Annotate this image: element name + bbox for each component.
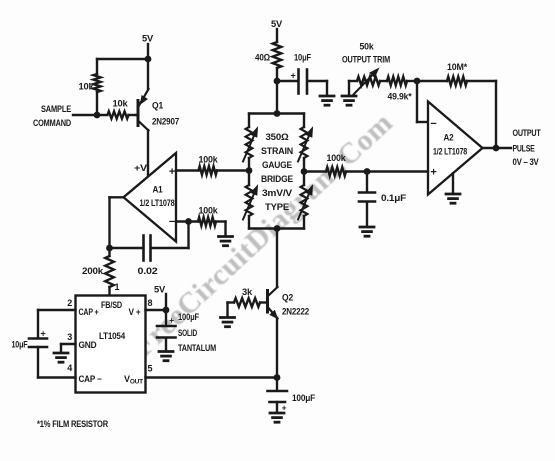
ground (LT1054 GND pin) — [54, 352, 68, 355]
svg-text:+: + — [282, 403, 287, 413]
svg-text:BRIDGE: BRIDGE — [261, 174, 293, 185]
node junction dot bridge bottom — [274, 225, 281, 232]
svg-text:5: 5 — [148, 364, 153, 374]
svg-text:5V: 5V — [154, 285, 166, 296]
svg-text:2N2907: 2N2907 — [152, 117, 179, 128]
wire 0.1uF to ground — [366, 202, 368, 227]
svg-text:TYPE: TYPE — [265, 202, 289, 213]
resistor 100k (bridge to A2) — [304, 170, 326, 172]
op-amp A2 1/2 LT1078 (triangle pointing right) — [428, 102, 483, 195]
svg-text:Q1: Q1 — [152, 101, 164, 112]
resistor 200k (feedback to LT1054 FB/SD) — [108, 248, 110, 256]
node junction dot bridge right mid — [301, 168, 308, 175]
node junction dot bridge left mid — [246, 167, 253, 174]
wire Q1 collector down to A1 V+ — [147, 130, 149, 177]
wire node to 10M — [417, 80, 447, 82]
svg-text:CAP −: CAP − — [79, 374, 102, 384]
wire 5V stub to 40 ohm — [276, 29, 278, 42]
wire SAMPLE COMMAND to 10k base resistor — [73, 114, 106, 116]
svg-text:SAMPLE: SAMPLE — [41, 104, 71, 114]
wire rail down into resistor R 10k — [96, 59, 98, 74]
node junction dot sample command — [94, 112, 101, 119]
wire Q2 emitter down to VOUT node — [276, 318, 278, 378]
svg-text:A2: A2 — [444, 133, 454, 144]
svg-text:49.9k*: 49.9k* — [388, 92, 413, 102]
svg-text:+V: +V — [134, 163, 148, 174]
wire 0.02 cap to A1 - input — [152, 247, 189, 249]
wire pin2 CAP+ to 10uF — [38, 309, 76, 311]
wire Q2 collector to bridge bottom — [276, 229, 278, 288]
capacitor 100uF solid tantalum — [157, 325, 176, 328]
node junction dot A1 - input — [185, 218, 192, 225]
svg-text:3k: 3k — [242, 287, 253, 298]
resistor 10k (horizontal, base) — [108, 111, 129, 118]
resistor 100k (A1 + input) — [199, 166, 218, 175]
resistor 40 ohm (bridge supply) — [273, 42, 282, 68]
svg-text:2: 2 — [67, 298, 72, 308]
svg-text:1: 1 — [115, 282, 120, 292]
svg-text:10M*: 10M* — [447, 62, 467, 73]
svg-text:100k: 100k — [199, 155, 219, 166]
svg-text:OUTPUT TRIM: OUTPUT TRIM — [342, 55, 390, 65]
svg-text:10μF: 10μF — [294, 53, 311, 64]
ground (output 100uF) — [270, 412, 284, 415]
svg-text:GND: GND — [79, 340, 97, 350]
transistor Q1 2N2907 (PNP) — [137, 101, 140, 126]
svg-text:+: + — [169, 315, 174, 325]
capacitor 0.1uF (filter) — [359, 191, 375, 194]
node junction dot V+ 5V — [163, 307, 170, 314]
wire tantalum cap to ground — [165, 338, 167, 351]
wire 10uF to ground — [308, 80, 327, 82]
resistor 100k (A1 - input to ground) — [198, 217, 216, 226]
wire resistor to base node — [96, 92, 98, 115]
svg-text:+: + — [40, 329, 45, 339]
strain gauge bridge outline top edge — [249, 112, 304, 114]
wire A1 - input — [176, 220, 198, 222]
node junction dot A1 output feedback — [106, 245, 113, 252]
svg-text:100μF: 100μF — [292, 393, 316, 403]
svg-text:4: 4 — [67, 363, 72, 373]
svg-text:10k: 10k — [113, 99, 129, 110]
node junction dot 0.1uF filter — [364, 168, 371, 175]
svg-text:TANTALUM: TANTALUM — [178, 343, 216, 353]
svg-text:100k: 100k — [327, 153, 347, 164]
wire 10M to output node — [467, 80, 496, 82]
resistor 49.9k — [387, 77, 407, 86]
svg-text:0V – 3V: 0V – 3V — [513, 157, 540, 167]
IC U1 LT1054 switched-capacitor converter — [76, 296, 146, 393]
wire A1 output to feedback node — [110, 196, 124, 198]
wire node down to 0.1uF — [366, 172, 368, 193]
wire pot to 49.9k — [380, 80, 387, 82]
wire 10uF to pin4 CAP- — [37, 347, 39, 378]
svg-text:Q2: Q2 — [282, 293, 293, 304]
svg-text:200k: 200k — [82, 266, 104, 277]
svg-text:LT1054: LT1054 — [99, 331, 125, 341]
wire supply node down to bridge top — [276, 81, 278, 114]
svg-text:*1% FILM RESISTOR: *1% FILM RESISTOR — [37, 419, 108, 429]
wire bridge right edge middle — [303, 158, 305, 185]
svg-text:SOLID: SOLID — [178, 328, 197, 338]
svg-text:0.02: 0.02 — [138, 266, 158, 277]
svg-text:100k: 100k — [199, 206, 219, 217]
watermark FreeCircuitDiagram.Com — [126, 106, 400, 364]
wire 100k to bridge left node — [217, 169, 249, 171]
wire 100k to A2 + input — [346, 170, 428, 172]
ground (0.1uF) — [360, 226, 374, 229]
svg-text:−: − — [169, 216, 175, 228]
wire output cap to ground — [276, 402, 278, 413]
svg-text:100μF: 100μF — [178, 312, 199, 322]
wire 100k to ground stub — [216, 220, 226, 222]
svg-text:50k: 50k — [360, 42, 375, 53]
svg-text:40Ω: 40Ω — [255, 53, 270, 64]
node junction dot supply/bypass — [274, 78, 281, 85]
svg-text:GAUGE: GAUGE — [262, 160, 292, 171]
wire pin8 V+ to 5V node — [146, 309, 167, 311]
wire A2 output — [483, 147, 512, 149]
ground (Q2 base 3k) — [221, 316, 235, 319]
wire 40 ohm to supply node — [276, 68, 278, 81]
wire 3k ground stub — [228, 301, 235, 303]
variable resistor bridge right-bottom arm — [301, 185, 308, 216]
svg-text:10μF: 10μF — [12, 340, 28, 350]
resistor 10M (A2 feedback) — [447, 77, 467, 86]
svg-text:CAP +: CAP + — [79, 307, 99, 317]
transistor Q2 2N2222 (NPN) — [266, 291, 269, 313]
node junction dot A2 inverting input net — [414, 78, 421, 85]
svg-text:3: 3 — [67, 332, 72, 342]
ground (10uF bypass) — [320, 95, 334, 98]
svg-text:V +: V + — [129, 307, 141, 317]
variable resistor bridge left-bottom arm — [246, 185, 253, 216]
wire pin5 VOUT rail to Q2 emitter node — [146, 376, 278, 378]
svg-text:+: + — [290, 71, 295, 81]
ground (A1 - input 100k) — [219, 235, 233, 238]
node junction dot at 5V rail / Q1 emitter — [145, 56, 152, 63]
wire feedback node down to A2 - input — [416, 81, 418, 122]
capacitor 0.02 (A1 feedback) — [142, 236, 145, 261]
node junction dot output/feedback — [493, 145, 500, 152]
svg-text:+: + — [169, 166, 175, 178]
variable resistor bridge right-top arm — [303, 114, 305, 128]
wire base resistor to Q1 base — [136, 114, 138, 116]
wire supply node to 10uF bypass — [277, 80, 298, 82]
wire 5V stub down to rail — [147, 44, 149, 59]
svg-text:PULSE: PULSE — [513, 144, 535, 154]
wire 5V stub — [165, 294, 167, 310]
capacitor 10uF (bridge bypass) — [297, 70, 300, 94]
svg-text:A1: A1 — [153, 185, 164, 196]
node junction dot bridge top — [274, 110, 281, 117]
potentiometer 50k output trim — [357, 77, 380, 86]
wire 49.9k to A2 feedback node — [407, 80, 417, 82]
svg-text:8: 8 — [148, 298, 153, 308]
svg-text:0.1μF: 0.1μF — [381, 193, 407, 203]
wire feedback node to 0.02 cap — [110, 247, 143, 249]
svg-text:−: − — [430, 118, 436, 130]
svg-text:1/2 LT1078: 1/2 LT1078 — [433, 147, 467, 157]
svg-text:STRAIN: STRAIN — [261, 146, 293, 157]
wire top rail to 10k resistor — [97, 58, 148, 60]
op-amp A1 1/2 LT1078 (triangle pointing left) — [124, 153, 177, 242]
wire V+ node to 100uF cap — [165, 310, 167, 326]
svg-text:+: + — [430, 167, 436, 179]
resistor 3k (Q2 base) — [234, 298, 260, 307]
svg-text:2N2222: 2N2222 — [282, 307, 309, 318]
wire A2 ground stub — [452, 173, 454, 193]
capacitor 100uF (output) — [268, 390, 288, 393]
ground (A2) — [446, 193, 460, 196]
svg-text:COMMAND: COMMAND — [33, 118, 71, 128]
ground (50k pot) — [342, 95, 356, 98]
wire Q1 emitter up to rail — [147, 59, 149, 89]
wire 3k to Q2 base — [260, 301, 267, 303]
wire A1 + input to 100k — [176, 169, 199, 171]
svg-text:1/2 LT1078: 1/2 LT1078 — [140, 198, 175, 208]
strain gauge bridge outline bottom edge — [249, 227, 304, 229]
variable resistor bridge left-top arm — [248, 114, 250, 128]
wire bridge left edge middle — [248, 158, 250, 185]
resistor 10k (vertical, pull-up) — [93, 74, 100, 92]
wire pot left terminal — [349, 80, 357, 82]
svg-text:3mV/V: 3mV/V — [262, 188, 293, 199]
wire node to 100uF output cap — [276, 378, 278, 391]
svg-text:10k: 10k — [79, 82, 95, 93]
wire pin3 GND stub — [61, 343, 76, 345]
ground (100uF tantalum) — [159, 350, 173, 353]
svg-text:FB/SD: FB/SD — [101, 300, 122, 310]
svg-text:OUTPUT: OUTPUT — [513, 128, 542, 138]
capacitor 10uF (charge pump) — [29, 337, 47, 340]
node junction dot VOUT / emitter — [274, 374, 281, 381]
svg-text:350Ω: 350Ω — [266, 132, 290, 143]
